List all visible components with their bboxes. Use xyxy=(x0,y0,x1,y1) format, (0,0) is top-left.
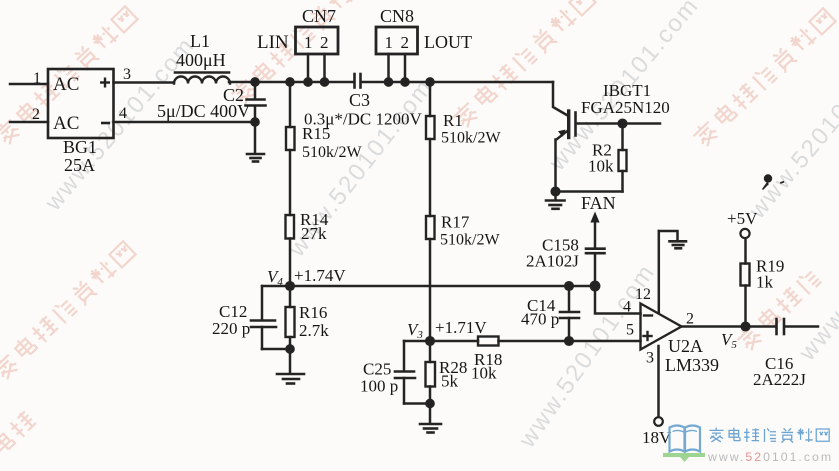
capacitor C3 xyxy=(355,74,361,88)
label R14 value xyxy=(301,224,327,243)
svg-text:3: 3 xyxy=(123,66,131,83)
watermark pink line top-left xyxy=(0,5,139,147)
resistor R1 xyxy=(426,82,435,216)
label pin 3 xyxy=(646,350,654,367)
node V5 R19 bottom xyxy=(742,323,750,331)
svg-text:2: 2 xyxy=(320,33,329,52)
node V3 xyxy=(426,337,434,345)
svg-text:U2A: U2A xyxy=(668,336,703,356)
label CN7 xyxy=(302,6,336,26)
wire pin12 xyxy=(658,231,661,313)
svg-text:1: 1 xyxy=(304,33,313,52)
label pin 2 xyxy=(686,311,694,328)
svg-text:LIN: LIN xyxy=(257,32,289,53)
label L1 xyxy=(190,31,210,51)
label IBGT1 xyxy=(603,81,651,100)
rectifier BG1 box xyxy=(48,69,114,138)
label LIN xyxy=(257,32,289,53)
label R1 value xyxy=(441,130,501,147)
label R18 xyxy=(474,350,502,369)
label CN8 pin2 xyxy=(401,33,410,52)
watermark pink line right-edge xyxy=(691,7,837,149)
capacitor C158 xyxy=(586,249,605,254)
connector CN8 box xyxy=(376,27,418,54)
svg-text:AC: AC xyxy=(53,113,79,134)
label 400uH xyxy=(176,50,226,70)
wire IGBT emitter down xyxy=(554,140,557,192)
op-amp U2A triangle xyxy=(641,304,682,350)
svg-text:27k: 27k xyxy=(301,224,327,243)
label pin 12 xyxy=(635,286,651,303)
label C16 value xyxy=(753,370,806,389)
label R17 xyxy=(441,213,470,232)
minus sign pin4 xyxy=(644,314,652,316)
wire main rail left of C3 xyxy=(229,81,354,84)
resistor R16 xyxy=(286,286,295,349)
node R16 bottom xyxy=(286,345,293,352)
svg-text:510k/2W: 510k/2W xyxy=(441,130,501,147)
watermark pink line left-mid xyxy=(0,240,137,382)
ground above op-amp xyxy=(670,241,687,248)
node CN7 pin1 xyxy=(304,78,311,85)
capacitor C2 xyxy=(246,82,266,153)
label R15 xyxy=(302,124,330,143)
wire pin12 to ground xyxy=(659,231,678,240)
wire pin4 to C2 xyxy=(114,121,256,124)
resistor R28 xyxy=(426,341,436,404)
logo url xyxy=(707,450,833,464)
svg-text:4: 4 xyxy=(119,105,127,122)
node emitter xyxy=(552,188,560,196)
terminal 18V circle xyxy=(654,417,663,426)
svg-text:R1: R1 xyxy=(443,111,463,130)
label LM339 xyxy=(665,355,719,375)
node R28 bottom xyxy=(426,400,433,407)
plus sign BG1 xyxy=(100,78,110,88)
svg-text:BG1: BG1 xyxy=(63,137,97,157)
svg-text:5: 5 xyxy=(626,322,634,339)
label C12 value xyxy=(212,319,250,338)
pin label 4 xyxy=(119,105,127,122)
svg-text:1k: 1k xyxy=(756,273,774,292)
svg-text:1: 1 xyxy=(385,33,394,52)
label R2 xyxy=(592,141,612,160)
label C158 value xyxy=(526,252,579,271)
label C25 value xyxy=(360,377,398,396)
wire CN7 pin1 stub xyxy=(307,54,310,82)
svg-text:18V: 18V xyxy=(642,428,672,447)
terminal +5V circle xyxy=(740,229,749,238)
label C2 value xyxy=(157,101,250,121)
watermark pink line bottom-left corner xyxy=(0,409,37,471)
label R1 xyxy=(443,111,463,130)
svg-text:FGA25N120: FGA25N120 xyxy=(581,98,670,117)
label R28 xyxy=(439,358,467,377)
svg-text:2.7k: 2.7k xyxy=(299,321,329,340)
svg-text:400μH: 400μH xyxy=(176,50,226,70)
label CN7 pin2 xyxy=(320,33,329,52)
plus sign pin5 xyxy=(644,332,652,340)
svg-text:10k: 10k xyxy=(588,157,614,176)
svg-text:4: 4 xyxy=(623,299,631,316)
wire V4 horizontal xyxy=(262,285,595,288)
capacitor C16 xyxy=(777,319,785,334)
node R15 top xyxy=(286,78,293,85)
label C25 xyxy=(363,360,391,379)
svg-text:C3: C3 xyxy=(349,90,370,110)
pin label 2 xyxy=(32,106,40,123)
label R16 xyxy=(299,303,327,322)
label CN8 pin1 xyxy=(385,33,394,52)
svg-text:R16: R16 xyxy=(299,303,327,322)
label C12 xyxy=(219,302,247,321)
wire CN7 pin2 stub xyxy=(323,54,326,82)
svg-text:+1.71V: +1.71V xyxy=(435,318,487,337)
svg-text:CN8: CN8 xyxy=(380,6,414,26)
label 25A xyxy=(64,155,95,175)
svg-text:R17: R17 xyxy=(441,213,470,232)
wire CN8 pin2 stub xyxy=(404,54,407,82)
label C14 value xyxy=(521,310,559,329)
wire rail corner down to IGBT xyxy=(553,82,569,116)
svg-text:12: 12 xyxy=(635,286,651,303)
label V4 xyxy=(267,267,283,288)
wire main rail right of C3 xyxy=(362,81,554,84)
node C14 bottom xyxy=(565,337,573,345)
svg-text:2: 2 xyxy=(32,106,40,123)
label V4 voltage xyxy=(294,266,346,285)
ground below emitter xyxy=(546,192,565,209)
svg-text:www.520101.com: www.520101.com xyxy=(707,450,833,464)
svg-text:L1: L1 xyxy=(190,31,210,51)
svg-text:+1.74V: +1.74V xyxy=(294,266,346,285)
logo green underline xyxy=(663,453,705,462)
svg-text:510k/2W: 510k/2W xyxy=(302,144,362,161)
watermark pink line bottom-right xyxy=(735,267,822,352)
wire CN8 pin1 stub xyxy=(387,54,390,82)
FAN arrow xyxy=(590,212,599,249)
node CN8 pin1 xyxy=(385,78,392,85)
ink speck xyxy=(762,174,784,190)
svg-text:2A102J: 2A102J xyxy=(526,252,579,271)
svg-text:220 p: 220 p xyxy=(212,319,250,338)
label CN8 xyxy=(380,6,414,26)
svg-text:470 p: 470 p xyxy=(521,310,559,329)
svg-text:3: 3 xyxy=(646,350,654,367)
wire right of C16 xyxy=(785,325,818,328)
label R19 value xyxy=(756,273,774,292)
label BG1 xyxy=(63,137,97,157)
node C2 pin4 junction xyxy=(251,118,258,125)
svg-text:510k/2W: 510k/2W xyxy=(440,232,500,249)
node R1 top xyxy=(426,78,433,85)
resistor R18 xyxy=(478,337,499,346)
svg-text:+5V: +5V xyxy=(727,209,758,228)
ground below C2 xyxy=(247,154,264,162)
label C3 value xyxy=(304,110,422,129)
label C14 xyxy=(527,296,556,315)
ground below R28 xyxy=(420,404,441,433)
node C14 top xyxy=(565,282,573,290)
label R15 value xyxy=(302,144,362,161)
label R2 value xyxy=(588,157,614,176)
label pin 4 xyxy=(623,299,631,316)
wire V3 horizontal right of R18 xyxy=(499,340,641,343)
minus sign BG1 xyxy=(101,122,110,125)
svg-text:R15: R15 xyxy=(302,124,330,143)
svg-text:10k: 10k xyxy=(471,364,497,383)
node CN7 pin2 xyxy=(321,78,328,85)
node gate R2 top xyxy=(619,120,627,128)
svg-text:2: 2 xyxy=(686,311,694,328)
wire AC input 1 xyxy=(10,83,48,86)
watermark pink line top-right xyxy=(451,0,597,130)
wire emitter to R2 bottom xyxy=(556,190,623,193)
label +5V xyxy=(727,209,758,228)
capacitor C14 xyxy=(560,286,579,341)
wire to comparator pin4 xyxy=(595,286,641,314)
svg-text:25A: 25A xyxy=(64,155,95,175)
resistor R19 xyxy=(741,239,750,327)
label 18V xyxy=(642,428,672,447)
resistor R15 xyxy=(286,82,295,215)
logo book icon xyxy=(670,426,701,452)
label V3 xyxy=(407,320,423,341)
node C2 top xyxy=(251,78,258,85)
svg-text:2: 2 xyxy=(401,33,410,52)
wire pin3 down xyxy=(657,346,660,417)
svg-text:AC: AC xyxy=(53,74,79,95)
label R28 value xyxy=(441,372,459,391)
label LOUT xyxy=(424,32,472,52)
label C2 xyxy=(223,85,244,105)
ground below R16 xyxy=(277,349,304,384)
watermark pink line top-middle xyxy=(229,0,375,107)
label C158 xyxy=(542,236,579,255)
svg-text:LM339: LM339 xyxy=(665,355,719,375)
wire C158 down to V4 rail xyxy=(594,254,597,287)
transistor IBGT1 body xyxy=(556,111,576,140)
svg-text:LOUT: LOUT xyxy=(424,32,472,52)
resistor R14 xyxy=(286,215,295,286)
svg-text:5k: 5k xyxy=(441,372,459,391)
label R17 value xyxy=(440,232,500,249)
label C16 xyxy=(765,354,793,373)
label C3 xyxy=(349,90,370,110)
label V5 xyxy=(721,330,737,351)
svg-text:100 p: 100 p xyxy=(360,377,398,396)
node C158 bottom xyxy=(591,282,599,290)
label R18 value xyxy=(471,364,497,383)
pin label 1 xyxy=(33,70,41,87)
label R14 xyxy=(300,210,329,229)
inductor L1 xyxy=(174,73,230,84)
wire pin3 to L1 xyxy=(114,81,175,84)
label U2A xyxy=(668,336,703,356)
svg-text:FAN: FAN xyxy=(581,193,616,213)
logo chinese text xyxy=(709,428,829,443)
wire output pin2 xyxy=(682,325,776,328)
wire AC input 2 xyxy=(10,121,48,124)
svg-text:2A222J: 2A222J xyxy=(753,370,806,389)
wire V3 horizontal left of R18 xyxy=(404,340,478,343)
label FAN xyxy=(581,193,616,213)
capacitor C25 xyxy=(395,341,430,404)
label R19 xyxy=(756,257,784,276)
wire IGBT gate lead xyxy=(576,122,660,125)
label AC top xyxy=(53,74,79,95)
pin label 3 xyxy=(123,66,131,83)
connector CN7 box xyxy=(296,27,339,54)
label V3 voltage xyxy=(435,318,487,337)
svg-text:5μ/DC 400V: 5μ/DC 400V xyxy=(157,101,250,121)
label pin 5 xyxy=(626,322,634,339)
capacitor C12 xyxy=(251,286,290,349)
label FGA25N120 xyxy=(581,98,670,117)
resistor R2 xyxy=(619,124,627,192)
label CN7 pin1 xyxy=(304,33,313,52)
svg-text:1: 1 xyxy=(33,70,41,87)
node CN8 pin2 xyxy=(401,78,408,85)
svg-text:CN7: CN7 xyxy=(302,6,336,26)
label R16 value xyxy=(299,321,329,340)
resistor R17 xyxy=(426,216,435,341)
node V4 xyxy=(286,282,294,290)
label AC bottom xyxy=(53,113,79,134)
